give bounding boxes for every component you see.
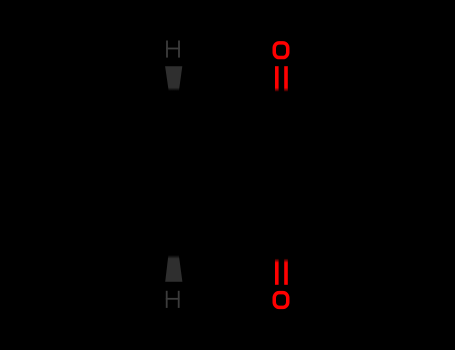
atom label H (top ring-fusion hydrogen) <box>166 41 180 58</box>
atom label H (bottom ring-fusion hydrogen) <box>166 291 180 308</box>
atom label O (bottom carbonyl oxygen) <box>274 293 288 308</box>
C=O double bond (bottom, right line) <box>284 259 288 285</box>
C=O double bond (bottom, left line) <box>275 259 279 285</box>
C=O double bond (top, right line) <box>284 66 288 91</box>
hashed wedge bond (bottom stereocenter to H) <box>165 255 182 282</box>
solid wedge bond (top stereocenter to H) <box>165 66 182 91</box>
atom label O (top carbonyl oxygen) <box>274 43 288 58</box>
C=O double bond (top, left line) <box>275 66 279 91</box>
